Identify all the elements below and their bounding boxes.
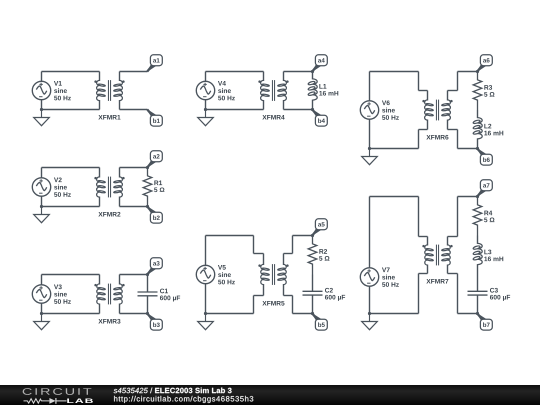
node a1 [147, 55, 163, 72]
voltage source V6 [360, 101, 378, 119]
transformer XFMR5 [258, 254, 288, 296]
wire secondary bottom 1 [120, 109, 148, 111]
label R2 5 ohm [319, 249, 327, 254]
attribution line 1 [114, 387, 148, 392]
node b5 [312, 313, 328, 330]
junction dot 2 [40, 205, 43, 208]
wire bottom primary 2 [42, 206, 100, 208]
label L1 16 mH [319, 84, 326, 89]
wire bottom primary 1 [42, 109, 100, 111]
ground 4 [198, 110, 214, 126]
wire secondary bottom 4 [284, 109, 313, 111]
wire secondary bottom 3 [120, 313, 148, 315]
footer bar [0, 385, 540, 405]
junction dot 4 [204, 108, 207, 111]
wire secondary bottom 5 [284, 295, 293, 297]
label V6 sine 50 Hz [382, 100, 390, 105]
transformer XFMR1 [94, 72, 124, 110]
junction dot 3 [40, 312, 43, 315]
wire top primary 4 [206, 71, 264, 73]
inductor L1 [308, 72, 317, 110]
label R3 5 ohm [484, 85, 492, 90]
label R4 5 ohm [484, 211, 492, 216]
wire top primary 7 [370, 196, 419, 198]
transformer XFMR4 [258, 72, 288, 110]
wire bottom primary 5 [206, 313, 254, 315]
wire secondary top 3 [120, 274, 148, 276]
capacitor C1 [138, 275, 158, 314]
node b1 [147, 109, 163, 126]
capacitor C3 [468, 275, 488, 314]
node b2 [147, 206, 163, 223]
wire secondary bottom 2 [120, 206, 148, 208]
label V3 sine 50 Hz [54, 284, 62, 289]
node b3 [147, 313, 163, 330]
inductor L2 [473, 110, 482, 149]
junction dot 5 [204, 312, 207, 315]
label XFMR2 [98, 212, 120, 217]
logo diode [49, 398, 55, 404]
label V4 sine 50 Hz [218, 81, 226, 86]
resistor R2 [308, 236, 317, 275]
ground 6 [362, 149, 378, 165]
label XFMR4 [262, 115, 284, 120]
wire top primary 3 [42, 274, 100, 276]
ground 3 [34, 314, 50, 330]
resistor R3 [473, 72, 482, 111]
label XFMR6 [426, 135, 448, 140]
junction dot 1 [40, 108, 43, 111]
ground 7 [362, 314, 378, 330]
voltage source V1 [32, 81, 50, 99]
wire top primary 6 [370, 71, 419, 73]
junction dot 7 [368, 312, 371, 315]
voltage source V2 [32, 178, 50, 196]
transformer XFMR2 [94, 168, 124, 207]
resistor R1 [143, 168, 152, 207]
wire secondary top 7 [448, 236, 458, 238]
wire bottom primary 7 [370, 313, 419, 315]
label XFMR7 [426, 279, 448, 284]
wire secondary bottom 6 [448, 129, 458, 131]
label XFMR3 [98, 319, 120, 324]
attribution line 2 [114, 395, 253, 402]
label L2 16 mH [484, 124, 491, 129]
node a7 [477, 180, 493, 197]
label V2 sine 50 Hz [54, 177, 62, 182]
node a3 [147, 258, 163, 275]
logo resistor waveform [24, 398, 50, 402]
node a2 [147, 151, 163, 168]
label V1 sine 50 Hz [54, 81, 62, 86]
resistor R4 [473, 197, 482, 236]
logo word LAB [67, 398, 93, 402]
wire top primary 1 [42, 71, 100, 73]
label C2 600 uF [325, 288, 333, 293]
transformer XFMR6 [422, 91, 452, 130]
wire secondary top 2 [120, 167, 148, 169]
label C1 600 uF [160, 289, 168, 294]
capacitor C2 [303, 275, 323, 314]
node b7 [477, 313, 493, 330]
logo word CIRCUIT [23, 388, 92, 395]
wire bottom primary 6 [370, 148, 419, 150]
junction dot 6 [368, 147, 371, 150]
voltage source V4 [196, 81, 214, 99]
wire top primary 2 [42, 167, 100, 169]
inductor L3 [473, 236, 482, 275]
wire bottom primary 4 [206, 109, 264, 111]
transformer XFMR3 [94, 275, 124, 314]
node a6 [477, 55, 493, 72]
wire secondary top 4 [284, 71, 313, 73]
label L3 16 mH [484, 250, 491, 255]
label V7 sine 50 Hz [382, 268, 390, 273]
wire secondary bottom 7 [448, 273, 458, 275]
node b6 [477, 148, 493, 165]
label C3 600 uF [490, 288, 498, 293]
voltage source V5 [196, 265, 214, 283]
ground 2 [34, 207, 50, 223]
label V5 sine 50 Hz [218, 265, 226, 270]
voltage source V7 [360, 268, 378, 286]
node a5 [312, 219, 328, 236]
wire secondary top 6 [448, 90, 458, 92]
wire secondary top 1 [120, 71, 148, 73]
node a4 [312, 55, 328, 72]
wire top primary 5 [206, 235, 254, 237]
ground 5 [198, 314, 214, 330]
CircuitLab logo [0, 385, 300, 405]
label XFMR5 [262, 301, 284, 306]
voltage source V3 [32, 285, 50, 303]
ground 1 [34, 110, 50, 126]
label R1 5 ohm [154, 181, 162, 186]
label XFMR1 [98, 115, 120, 120]
node b4 [312, 109, 328, 126]
wire secondary top 5 [284, 253, 293, 255]
wire bottom primary 3 [42, 313, 100, 315]
transformer XFMR7 [422, 237, 452, 274]
